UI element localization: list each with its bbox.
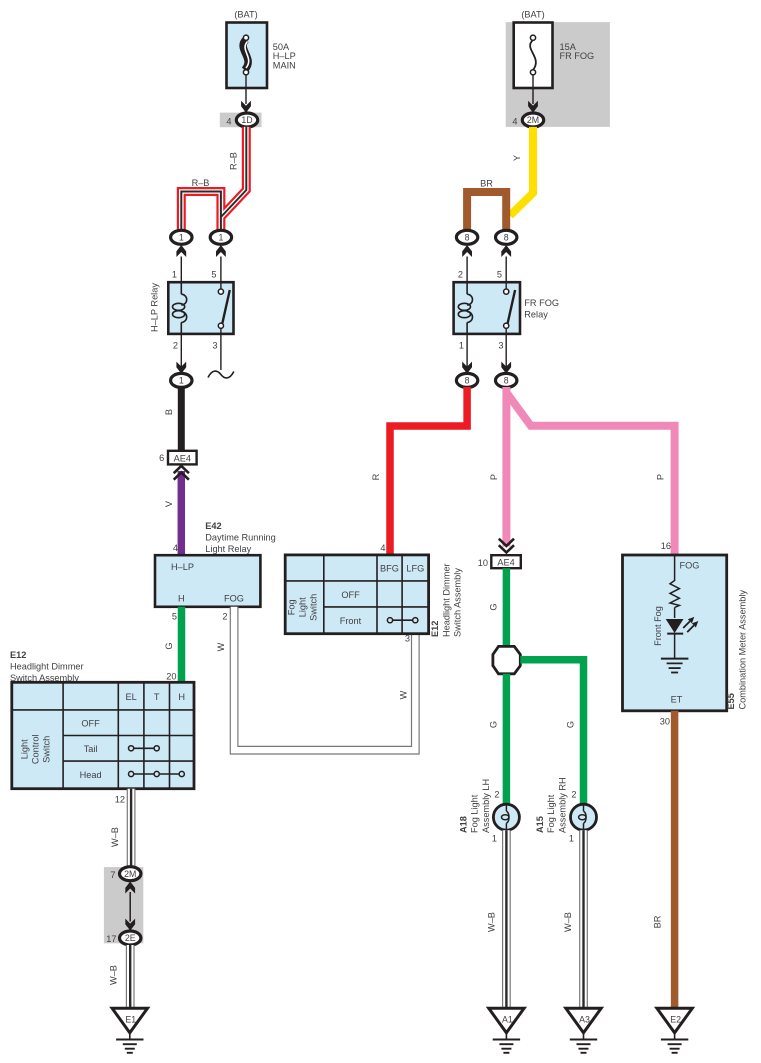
svg-text:E55: E55 <box>726 693 736 709</box>
svg-text:(BAT): (BAT) <box>521 10 544 20</box>
svg-text:G: G <box>164 642 174 649</box>
svg-text:Tail: Tail <box>84 744 98 754</box>
svg-text:G: G <box>566 721 576 728</box>
wire R (red) to fog switch BFG <box>371 387 467 555</box>
pin 3 of H-LP relay with continuation squiggle <box>208 334 234 378</box>
svg-text:2: 2 <box>173 341 178 351</box>
svg-text:8: 8 <box>465 233 470 243</box>
svg-text:Head: Head <box>80 770 102 780</box>
svg-text:OFF: OFF <box>81 719 100 729</box>
svg-text:H–LP Relay: H–LP Relay <box>150 283 160 332</box>
svg-text:BFG: BFG <box>380 564 399 574</box>
lamp A18 fog light LH <box>492 804 520 843</box>
label E12 Headlight Dimmer Switch Assembly (left) <box>10 650 84 683</box>
ground A1 <box>489 1008 524 1053</box>
svg-text:Switch: Switch <box>42 736 52 763</box>
svg-text:10: 10 <box>478 558 488 568</box>
label A15 Fog Light Assembly RH <box>535 777 568 833</box>
wire B (black) to AE4 <box>164 387 181 451</box>
connector 6 AE4 <box>159 451 196 465</box>
svg-text:T: T <box>154 692 160 702</box>
wire R-B from 1D to relay pins (red with black stripe) <box>181 127 246 231</box>
svg-text:Combination Meter Assembly: Combination Meter Assembly <box>738 590 748 710</box>
svg-text:1: 1 <box>459 341 464 351</box>
wire BR (brown) U to relay pins <box>467 179 506 232</box>
wire Y (yellow) from 2M <box>510 127 533 216</box>
wire W-B RH fog light to ground A3 <box>563 830 584 1008</box>
fuse 15A FR FOG <box>514 23 595 89</box>
wire W-B from E12 pin 12 to connector 2M <box>110 789 131 867</box>
switch table E12 Light Control Switch <box>12 682 194 788</box>
svg-text:W–B: W–B <box>110 827 120 847</box>
svg-text:8: 8 <box>504 233 509 243</box>
wire fuse to connector 1D <box>241 75 251 113</box>
svg-text:R–B: R–B <box>192 178 210 188</box>
ground E2 <box>657 1008 692 1053</box>
svg-text:W–B: W–B <box>487 912 497 932</box>
svg-text:1: 1 <box>218 233 223 243</box>
svg-text:W–B: W–B <box>109 965 119 985</box>
label A18 Fog Light Assembly LH <box>459 779 492 833</box>
svg-text:E1: E1 <box>125 1015 136 1025</box>
label E12 Headlight Dimmer Switch Assembly (rotated) <box>430 563 463 637</box>
svg-text:FR FOG: FR FOG <box>524 298 559 308</box>
svg-text:OFF: OFF <box>341 590 360 600</box>
svg-text:Assembly LH: Assembly LH <box>481 779 491 833</box>
svg-text:Relay: Relay <box>524 309 548 319</box>
pin 2 of H-LP relay to connector 1 <box>171 334 192 388</box>
svg-text:FR FOG: FR FOG <box>560 51 595 61</box>
svg-text:E12: E12 <box>10 650 26 660</box>
svg-text:LFG: LFG <box>406 564 424 574</box>
svg-text:1: 1 <box>569 834 574 844</box>
connector 10 AE4 <box>478 555 521 568</box>
connector 8 (FR FOG relay pin 5) <box>496 230 517 282</box>
svg-text:AE4: AE4 <box>174 454 191 464</box>
wire fuse to connector 2M <box>528 75 538 113</box>
svg-text:R–B: R–B <box>229 152 239 170</box>
svg-text:20: 20 <box>166 672 176 682</box>
svg-text:5: 5 <box>172 612 177 622</box>
wire P (pink) from relay pin 3 <box>489 387 675 555</box>
svg-text:1: 1 <box>179 376 184 386</box>
wire G octagon to LH fog light <box>489 674 507 805</box>
meter box E55 Combination Meter Assembly <box>623 541 727 711</box>
svg-text:Headlight Dimmer: Headlight Dimmer <box>10 662 84 672</box>
svg-text:4: 4 <box>226 116 231 126</box>
svg-text:H: H <box>178 594 185 604</box>
connector 1 (left relay pin 5) <box>210 230 231 282</box>
node BAT left label <box>234 10 257 20</box>
connector 4 2M <box>512 113 543 127</box>
wire G from AE4 to splice octagon <box>489 568 507 646</box>
wire W-B from 2E to ground E1 <box>109 945 131 1008</box>
svg-text:4: 4 <box>380 543 385 553</box>
svg-text:3: 3 <box>212 341 217 351</box>
relay H-LP Relay <box>150 282 234 334</box>
wire V (violet) to E42 <box>164 471 181 555</box>
svg-text:Daytime Running: Daytime Running <box>205 533 275 543</box>
node BAT right label <box>521 10 544 20</box>
svg-text:E42: E42 <box>205 521 221 531</box>
svg-text:E2: E2 <box>670 1015 681 1025</box>
svg-text:1D: 1D <box>241 115 252 125</box>
svg-text:6: 6 <box>159 453 164 463</box>
svg-text:8: 8 <box>465 376 470 386</box>
svg-text:BR: BR <box>480 179 493 189</box>
connector 1 (left relay pin 1) <box>171 230 192 282</box>
svg-text:W–B: W–B <box>563 912 573 932</box>
svg-text:1: 1 <box>179 233 184 243</box>
wire W from E42 FOG to fog switch pin 3 <box>216 607 415 750</box>
svg-text:Light: Light <box>298 597 308 617</box>
wire BR from E55 ET to ground E2 <box>653 711 675 1009</box>
svg-text:Front: Front <box>340 616 362 626</box>
fog light switch table <box>285 555 428 634</box>
svg-text:E12: E12 <box>430 621 440 637</box>
svg-text:2: 2 <box>458 270 463 280</box>
svg-text:Assembly RH: Assembly RH <box>558 777 568 833</box>
svg-text:A3: A3 <box>579 1015 590 1025</box>
svg-text:Fog Light: Fog Light <box>546 794 556 833</box>
svg-text:1: 1 <box>492 834 497 844</box>
svg-text:Light: Light <box>20 739 30 759</box>
svg-text:Fog: Fog <box>287 599 297 615</box>
splice chevrons down <box>499 539 514 553</box>
relay FR FOG Relay <box>454 282 559 334</box>
svg-text:2M: 2M <box>527 115 539 125</box>
svg-text:4: 4 <box>512 116 517 126</box>
svg-text:Y: Y <box>512 155 522 161</box>
svg-text:R: R <box>371 473 381 480</box>
svg-text:5: 5 <box>211 270 216 280</box>
svg-text:1: 1 <box>172 270 177 280</box>
svg-text:P: P <box>489 474 499 480</box>
splice chevrons up <box>174 466 189 480</box>
svg-text:3: 3 <box>498 341 503 351</box>
svg-text:A18: A18 <box>459 816 469 833</box>
svg-text:2E: 2E <box>125 933 136 943</box>
svg-text:FOG: FOG <box>680 561 700 571</box>
svg-text:Switch: Switch <box>309 594 319 621</box>
svg-text:A1: A1 <box>502 1015 513 1025</box>
svg-text:EL: EL <box>125 692 136 702</box>
svg-text:W: W <box>399 690 409 699</box>
svg-text:AE4: AE4 <box>497 557 514 567</box>
svg-text:BR: BR <box>653 915 663 928</box>
wire G octagon to RH fog light <box>520 660 583 805</box>
svg-text:W: W <box>216 642 226 651</box>
svg-text:16: 16 <box>661 541 671 551</box>
pin 1 of FR FOG relay to connector 8 <box>456 334 477 388</box>
wire G from E42 H to E12 table <box>164 607 182 683</box>
svg-text:A15: A15 <box>535 816 545 833</box>
svg-text:30: 30 <box>660 717 670 727</box>
svg-text:2: 2 <box>571 790 576 800</box>
splice octagon junction <box>493 646 520 673</box>
connector 4 1D <box>220 113 262 128</box>
svg-text:B: B <box>164 409 174 415</box>
svg-text:Switch Assembly: Switch Assembly <box>453 568 463 637</box>
svg-text:MAIN: MAIN <box>273 60 296 70</box>
svg-text:Light Relay: Light Relay <box>205 544 251 554</box>
svg-text:V: V <box>164 500 174 507</box>
svg-text:17: 17 <box>106 934 116 944</box>
svg-text:(BAT): (BAT) <box>234 10 257 20</box>
svg-text:G: G <box>489 721 499 728</box>
svg-text:8: 8 <box>504 376 509 386</box>
svg-text:2: 2 <box>494 790 499 800</box>
svg-text:Headlight Dimmer: Headlight Dimmer <box>441 563 451 637</box>
ground A3 <box>566 1008 601 1053</box>
svg-text:FOG: FOG <box>224 594 244 604</box>
ground E1 <box>112 1008 147 1053</box>
connector 8 (FR FOG relay pin 2) <box>456 230 477 282</box>
lamp A15 fog light RH <box>569 804 597 843</box>
label E55 Combination Meter Assembly (rotated) <box>726 590 747 710</box>
svg-text:H: H <box>178 692 185 702</box>
svg-text:5: 5 <box>497 270 502 280</box>
connector block 2M / 2E <box>104 867 143 945</box>
svg-text:12: 12 <box>115 795 125 805</box>
svg-text:4: 4 <box>173 543 178 553</box>
svg-text:Control: Control <box>31 734 41 764</box>
pin 3 of FR FOG relay to connector 8 <box>496 334 517 388</box>
svg-text:P: P <box>656 474 666 480</box>
svg-text:Front Fog: Front Fog <box>653 606 663 646</box>
svg-text:7: 7 <box>110 870 115 880</box>
fuse box gray block <box>506 22 610 127</box>
svg-text:G: G <box>489 603 499 610</box>
svg-text:2M: 2M <box>124 869 136 879</box>
svg-text:H–LP: H–LP <box>171 562 194 572</box>
label E42 Daytime Running Light Relay <box>205 521 275 554</box>
svg-text:Fog Light: Fog Light <box>470 794 480 833</box>
relay box E42 H-LP / H / FOG <box>155 555 260 607</box>
wire W-B LH fog light to ground A1 <box>487 830 507 1008</box>
svg-text:2: 2 <box>222 612 227 622</box>
fuse 50A H-LP MAIN (fusible link) <box>227 23 296 89</box>
svg-text:ET: ET <box>671 695 683 705</box>
